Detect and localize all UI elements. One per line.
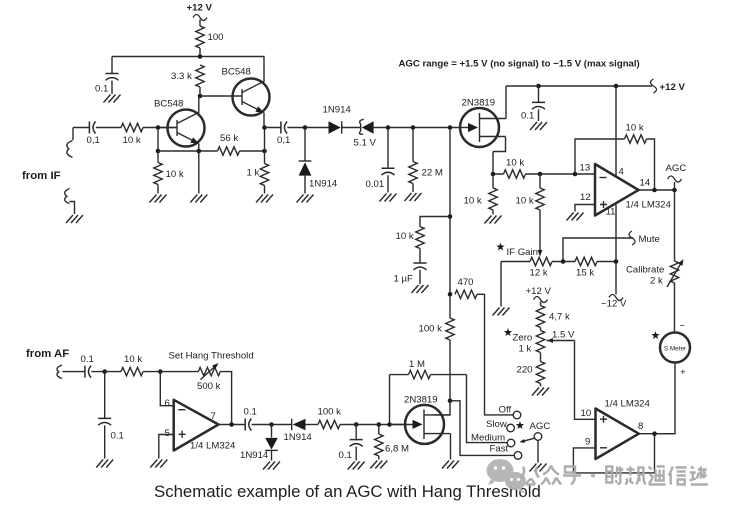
watermark char hao [563, 467, 581, 485]
wire 1M left down [389, 375, 391, 425]
svg-text:10 k: 10 k [124, 354, 142, 365]
capacitor 1uF [394, 263, 427, 285]
resistor 10k right vertical [516, 174, 545, 210]
wire output 14 [639, 189, 675, 191]
svg-text:+: + [680, 367, 686, 378]
capacitor 0.1 out [244, 407, 257, 431]
svg-text:0,1: 0,1 [277, 135, 290, 146]
ground 22M [405, 193, 422, 201]
node gate Q3 [448, 125, 453, 130]
ground 220 [532, 388, 549, 396]
svg-text:0.1: 0.1 [81, 354, 94, 365]
ground top-left cap [104, 95, 121, 103]
svg-text:10 k: 10 k [396, 231, 414, 242]
resistor 10k hang [396, 227, 425, 263]
ground IF gain [493, 308, 510, 316]
svg-text:2 k: 2 k [650, 276, 663, 287]
svg-text:+12 V: +12 V [187, 3, 213, 14]
wire emitter Q1 to ground [198, 151, 200, 194]
svg-text:from IF: from IF [22, 170, 61, 182]
watermark char pin [625, 467, 645, 485]
node 0.01 [386, 125, 391, 130]
wire U3 output [639, 433, 675, 435]
wire pin12 to ground [575, 205, 595, 212]
junction top bus / R100 [198, 54, 203, 59]
node 56k right [262, 149, 267, 154]
ground pin12 [567, 213, 584, 221]
wire IF input [73, 127, 89, 129]
node 10k mid [538, 172, 543, 177]
svg-text:Fast: Fast [490, 444, 509, 455]
connector -12V [609, 295, 623, 301]
svg-text:AGC range = +1.5 V (no signal): AGC range = +1.5 V (no signal) to −1.5 V… [399, 59, 640, 70]
diode D2 1N914 series [323, 105, 361, 134]
transistor Q1 BC548 [154, 96, 205, 151]
svg-text:10 k: 10 k [166, 169, 184, 180]
wire pole to ground [537, 440, 539, 462]
wire pin13 line [493, 173, 595, 175]
watermark char zhong [541, 466, 561, 485]
ground D3 [263, 462, 280, 470]
capacitor 0.1 rail [521, 86, 545, 122]
node rail to op-amp pin4 [614, 84, 619, 89]
resistor 470 [455, 277, 477, 298]
resistor 3.3k [171, 65, 204, 96]
resistor 4.7k [536, 302, 570, 331]
node drain Q4 [448, 399, 453, 404]
node emitter Q1 on y151 [197, 149, 202, 154]
svg-text:470: 470 [458, 277, 474, 288]
svg-text:10: 10 [581, 408, 592, 419]
resistor 10k feedback [625, 123, 647, 144]
wire y151 [158, 150, 265, 152]
wire pin5 to ground [159, 435, 174, 459]
op-amp U1 1/4 LM324 [580, 163, 672, 218]
svg-text:0.1: 0.1 [521, 111, 534, 122]
feedback loop wire [575, 139, 655, 190]
wire IF gain line [501, 261, 616, 263]
svg-text:1N914: 1N914 [284, 432, 313, 443]
potentiometer Set Hang Threshold 500k [169, 351, 254, 393]
wire branch left [420, 217, 450, 227]
svg-text:AGC: AGC [666, 163, 687, 174]
svg-text:AGC: AGC [530, 421, 551, 432]
ground 0.01 [380, 194, 397, 202]
svg-text:1N914: 1N914 [309, 179, 338, 190]
wire 10k to IF gain wiper [539, 210, 541, 251]
node 470 branch [448, 292, 453, 297]
svg-text:6: 6 [165, 398, 170, 409]
wire base Q2 [200, 95, 242, 97]
node pin6 tap [158, 369, 163, 374]
watermark char xin [669, 467, 687, 485]
svg-text:56 k: 56 k [220, 133, 238, 144]
svg-text:Medium: Medium [471, 433, 505, 444]
connector AGC out [666, 163, 687, 190]
diode D3 1N914 shunt [240, 425, 278, 462]
star IF gain [496, 243, 504, 251]
node [156, 149, 161, 154]
watermark char she [606, 467, 623, 484]
svg-text:5: 5 [165, 428, 170, 439]
contact pole [534, 433, 542, 441]
op-amp U2 1/4 LM324 [165, 398, 237, 452]
wire [265, 127, 281, 129]
wire main vertical bus [449, 128, 451, 401]
wire pot to output [220, 372, 231, 425]
capacitor 0,1 input [87, 122, 100, 147]
svg-text:7: 7 [211, 411, 216, 422]
node bias junction [156, 125, 161, 130]
capacitor 0.1 gate [339, 425, 363, 462]
svg-text:3.3 k: 3.3 k [171, 71, 192, 82]
node D1 [303, 125, 308, 130]
ground source Q4 [442, 461, 459, 469]
wire pin6 [160, 372, 173, 406]
svg-text:100: 100 [208, 32, 224, 43]
resistor 1k [247, 164, 269, 194]
watermark wechat icon [487, 459, 527, 493]
node emitter Q2 [262, 125, 267, 130]
svg-text:13: 13 [580, 163, 591, 174]
svg-text:+12 V: +12 V [526, 286, 552, 297]
wire U2 output [219, 424, 246, 426]
svg-text:12 k: 12 k [530, 268, 548, 279]
wire +12V rail [506, 85, 652, 87]
ground 10k left [485, 216, 502, 224]
node U3 feedback [652, 431, 657, 436]
capacitor 0.1 AF shunt [98, 372, 124, 459]
svg-text:0.1: 0.1 [339, 450, 352, 461]
wire mute [563, 238, 634, 262]
resistor 100k gate [318, 407, 342, 429]
wire 1M right to Medium [467, 375, 508, 443]
svg-text:Off: Off [499, 405, 512, 416]
wire drain link [434, 401, 451, 415]
wire [252, 424, 291, 426]
svg-text:10 k: 10 k [506, 158, 524, 169]
wire [96, 127, 121, 129]
svg-text:S Meter: S Meter [664, 346, 687, 353]
resistor 220 [517, 353, 545, 387]
svg-text:1N914: 1N914 [323, 105, 352, 116]
connector from AF [57, 365, 62, 379]
resistor 1M [390, 359, 467, 379]
capacitor 0,1 coupling [277, 122, 290, 147]
star slow [516, 421, 524, 429]
svg-text:10 k: 10 k [626, 123, 644, 134]
ground emitter Q1 [190, 195, 207, 203]
wire pin4 [615, 86, 617, 177]
node AGC out [672, 188, 677, 193]
ground pin5 [150, 460, 167, 468]
connector from IF upper [67, 141, 73, 158]
ground rail cap [530, 122, 547, 130]
resistor 10k input [121, 123, 143, 146]
capacitor 0.1 AF [81, 354, 94, 378]
node AF shunt [102, 369, 107, 374]
svg-text:Slow: Slow [486, 419, 507, 430]
wire zero wiper to pin10 [575, 341, 596, 420]
node mute tap [561, 259, 566, 264]
wire bias down [157, 128, 159, 163]
svg-text:BC548: BC548 [154, 99, 183, 110]
svg-text:−: − [680, 321, 686, 332]
potentiometer Calibrate 2k [626, 258, 686, 287]
connector Mute [629, 231, 635, 245]
svg-text:12: 12 [580, 192, 591, 203]
svg-text:−12 V: −12 V [601, 299, 627, 310]
svg-text:500 k: 500 k [197, 381, 221, 392]
contact Off [513, 411, 521, 419]
wire shield to ground [70, 202, 75, 215]
node 1M tap [387, 422, 392, 427]
capacitor 0.01 [366, 128, 395, 193]
wire gate line [340, 424, 407, 426]
node IF input corner [72, 128, 74, 141]
transistor Q2 BC548 [222, 57, 270, 128]
wire emitter Q2 down [264, 128, 266, 164]
svg-text:0.1: 0.1 [111, 431, 124, 442]
svg-text:1 k: 1 k [247, 168, 260, 179]
svg-text:4: 4 [619, 167, 625, 178]
svg-text:1 k: 1 k [519, 344, 532, 355]
capacitor 0.1 top left [95, 57, 119, 95]
star meter [651, 331, 659, 339]
node branch 10k/1uF [448, 214, 453, 219]
svg-text:+12 V: +12 V [660, 82, 686, 93]
svg-text:Calibrate: Calibrate [626, 265, 664, 276]
node pin11 line [614, 259, 619, 264]
wire to base Q1 [143, 127, 177, 129]
transistor Q4 2N3819 [390, 395, 451, 460]
resistor 10k AF [121, 354, 143, 376]
svg-text:IF Gain: IF Gain [507, 247, 538, 258]
ground AF shunt [96, 460, 113, 468]
wire [143, 371, 198, 373]
node source Q3 [491, 172, 496, 177]
svg-text:1 µF: 1 µF [394, 274, 414, 285]
resistor 10k horizontal pin13 [504, 158, 526, 179]
wire AF input [63, 371, 85, 373]
watermark dot [591, 473, 595, 477]
node output hang pot [229, 422, 234, 427]
watermark char tong [649, 467, 666, 485]
resistor 100 [196, 26, 224, 57]
node rail cap [536, 84, 541, 89]
svg-text:1/4 LM324: 1/4 LM324 [626, 200, 672, 211]
resistor 22M [409, 128, 443, 193]
meter S Meter [660, 333, 690, 363]
svg-text:Zero: Zero [513, 333, 533, 344]
watermark char lian [690, 467, 708, 485]
resistor 10k bias [154, 163, 184, 194]
wire pin9 feedback [573, 434, 654, 473]
ground 1k [256, 195, 273, 203]
wire [91, 371, 121, 373]
svg-text:Set Hang Threshold: Set Hang Threshold [169, 351, 254, 362]
ground 6.8M [370, 461, 387, 469]
node 22M [411, 125, 416, 130]
svg-text:8: 8 [638, 421, 643, 432]
contact Medium [507, 439, 515, 447]
resistor 100k vertical [419, 318, 455, 340]
connector +12V rail [651, 79, 657, 93]
svg-text:2N3819: 2N3819 [404, 395, 438, 406]
switch arm [521, 438, 535, 442]
svg-text:from AF: from AF [26, 348, 69, 360]
node output feedback [652, 188, 657, 193]
node 6.8M tap [377, 422, 382, 427]
node base junction [198, 94, 203, 99]
svg-text:Schematic example of an AGC wi: Schematic example of an AGC with Hang Th… [154, 482, 541, 501]
svg-text:4,7 k: 4,7 k [549, 312, 570, 323]
wire pin11 down [615, 203, 617, 295]
svg-text:100 k: 100 k [419, 324, 443, 335]
transistor Q3 2N3819 [460, 86, 506, 174]
svg-text:0.1: 0.1 [95, 84, 108, 95]
svg-text:10 k: 10 k [516, 196, 534, 207]
wire meter to U3 out [655, 363, 676, 434]
node +12V top connector [187, 3, 213, 27]
svg-text:220: 220 [517, 365, 533, 376]
ground IF shield [66, 215, 83, 223]
connector +12V mid [534, 297, 548, 303]
wire calibrate to meter [674, 283, 676, 333]
contact Slow [507, 424, 515, 432]
svg-text:1/4 LM324: 1/4 LM324 [605, 399, 651, 410]
svg-text:100 k: 100 k [318, 407, 342, 418]
connector from IF shield [65, 189, 70, 204]
diode D1 1N914 shunt [299, 128, 338, 194]
ground pole [530, 464, 547, 472]
wire top bus [112, 56, 265, 58]
node 0.1 tap [354, 422, 359, 427]
wire AGC chain down [674, 190, 676, 261]
svg-text:11: 11 [606, 207, 616, 218]
svg-text:BC548: BC548 [222, 67, 251, 78]
node feedback tap [573, 172, 578, 177]
svg-text:22 M: 22 M [422, 168, 443, 179]
potentiometer 12k IF gain [530, 257, 553, 278]
resistor 56k [218, 133, 240, 155]
svg-text:10 k: 10 k [123, 135, 141, 146]
potentiometer Zero 1k [504, 328, 575, 354]
wire 470 to Off [477, 294, 513, 415]
svg-text:14: 14 [640, 178, 651, 189]
contact Fast [514, 452, 522, 460]
svg-text:9: 9 [585, 437, 590, 448]
svg-text:0.01: 0.01 [366, 179, 385, 190]
svg-text:5.1 V: 5.1 V [354, 138, 377, 149]
svg-text:1N914: 1N914 [240, 450, 269, 461]
svg-text:6,8 M: 6,8 M [385, 444, 409, 455]
ground 10k bias [150, 195, 167, 203]
zener 5.1V [354, 119, 462, 148]
ground D1 [297, 195, 314, 203]
svg-text:0.1: 0.1 [244, 407, 257, 418]
svg-text:15 k: 15 k [576, 268, 594, 279]
ground 1uF [412, 285, 429, 293]
op-amp U3 1/4 LM324 [581, 399, 651, 460]
wire [287, 127, 328, 129]
wiper arrow IF gain [538, 250, 543, 257]
wire IF gain left to ground [500, 262, 502, 307]
node D3 tap [269, 422, 274, 427]
svg-text:10 k: 10 k [464, 196, 482, 207]
diode D4 1N914 series [284, 419, 319, 443]
resistor 6.8M [375, 425, 409, 460]
ground 0.1 gate [348, 462, 365, 470]
resistor 15k [575, 257, 597, 278]
svg-text:1 M: 1 M [409, 359, 425, 370]
svg-text:Mute: Mute [639, 234, 660, 245]
svg-text:0,1: 0,1 [87, 135, 100, 146]
watermark char gong [521, 467, 539, 485]
svg-text:1/4 LM324: 1/4 LM324 [190, 441, 236, 452]
svg-text:1.5 V: 1.5 V [552, 330, 575, 341]
resistor 10k left vertical [464, 174, 498, 215]
wire fast link [450, 401, 514, 456]
